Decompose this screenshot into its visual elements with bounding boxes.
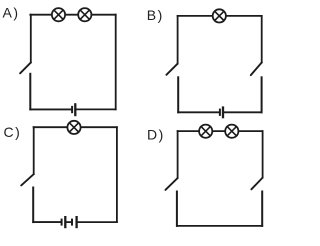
wire D left upper [177, 131, 179, 178]
switch S4 (open) [21, 174, 34, 185]
svg-text:C): C) [4, 124, 22, 140]
svg-text:A): A) [3, 5, 20, 21]
wire C bottom left [33, 221, 61, 223]
wire C battery link [65, 221, 72, 223]
battery B3 cell1 positive plate [64, 216, 66, 228]
wire B top [178, 15, 262, 17]
wire A bottom right [75, 108, 116, 110]
wire D right lower [261, 192, 263, 226]
wire B left upper [177, 16, 179, 64]
wire B right upper [261, 16, 263, 63]
lamp L5 [199, 125, 212, 138]
wire D left lower [176, 192, 178, 226]
wire C bottom right [77, 221, 117, 223]
wire D right upper [262, 131, 264, 178]
battery B1 negative plate [71, 106, 73, 113]
svg-text:B): B) [147, 7, 164, 23]
battery B3 cell1 negative plate [61, 219, 63, 226]
battery B2 positive plate [222, 106, 224, 118]
wire A right [115, 15, 117, 110]
wire D top [178, 130, 263, 132]
wire C right [116, 127, 118, 222]
svg-text:D): D) [147, 126, 165, 142]
switch S1 (open) [20, 62, 31, 73]
wire A left upper [30, 15, 32, 63]
switch S5 (open) [165, 178, 177, 190]
switch S2 (open) [166, 64, 177, 75]
battery B2 negative plate [219, 109, 221, 116]
wire C top [34, 126, 117, 128]
battery B1 positive plate [74, 103, 76, 116]
wire B left lower [177, 77, 179, 112]
lamp L4 [67, 121, 80, 134]
lamp L1 [52, 8, 65, 21]
lamp L6 [225, 125, 238, 138]
wire A left lower [29, 74, 31, 110]
wire D bottom [177, 225, 262, 227]
switch S3 (open) [251, 62, 262, 75]
wire B right lower [261, 77, 263, 112]
battery B3 cell2 positive plate [75, 216, 77, 228]
wire A top [30, 14, 115, 16]
wire A bottom left [30, 108, 72, 110]
wire B bottom left [178, 111, 220, 113]
switch S6 (open) [251, 178, 262, 190]
wire C left upper [33, 127, 35, 174]
wire B bottom right [223, 111, 262, 113]
wire C left lower [32, 188, 34, 223]
lamp L2 [78, 8, 91, 21]
lamp L3 [213, 9, 226, 22]
battery B3 cell2 negative plate [71, 219, 73, 226]
